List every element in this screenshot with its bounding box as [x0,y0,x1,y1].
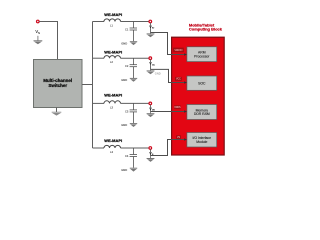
inductor L1 [104,19,121,22]
ground out row 1 [147,34,155,37]
svg-text:GND: GND [121,41,127,45]
inductor L2 [104,56,121,59]
svg-text:Module: Module [196,140,207,144]
wire node stub row 1 [150,23,152,33]
capacitor C4 [130,148,137,168]
node V out row 4 [149,147,152,150]
svg-text:Computing Block: Computing Block [189,27,223,32]
svg-text:GND: GND [121,168,127,172]
ground cap row 3 [130,124,137,127]
svg-text:VDDS: VDDS [174,107,181,109]
ground out row 4 [147,159,155,162]
wire bus branch row 1 [93,21,105,23]
svg-text:VCC: VCC [176,79,181,81]
svg-text:WE-MAPI: WE-MAPI [104,93,122,98]
svg-text:C2: C2 [125,64,129,68]
svg-text:WE-MAPI: WE-MAPI [104,49,122,54]
pin label VS [176,135,181,139]
block Mobile/Tablet Computing Block [172,37,225,155]
arrow into box row 3 [184,110,187,113]
svg-text:WE-MAPI: WE-MAPI [104,12,122,17]
block U3 SOC [187,76,217,90]
wire node stub row 2 [150,60,152,70]
svg-text:SOC: SOC [198,81,206,85]
ground switcher [52,112,62,115]
svg-text:GND: GND [121,78,127,82]
svg-text:DDR RAM: DDR RAM [194,112,210,116]
arrow into box row 4 [184,138,187,141]
svg-text:GND: GND [155,72,161,76]
wire inductor to node row 4 [121,147,149,149]
arrow into box row 1 [184,53,187,56]
svg-text:GND: GND [121,123,127,127]
capacitor C2 [130,58,137,78]
wire row 2 into block [151,69,185,82]
svg-text:C4: C4 [125,154,129,158]
svg-text:C3: C3 [125,109,129,113]
node V out row 2 [149,57,152,60]
pin label VDDS [174,105,181,109]
wire bus branch row 3 [93,102,105,104]
svg-text:Switcher: Switcher [48,83,67,88]
wire row 4 into block [151,140,185,156]
block U4 Memory DDR RAM [187,105,217,120]
wire row 3 into block [151,111,185,113]
inductor L4 [104,145,121,148]
svg-text:C1: C1 [125,27,129,31]
ground cap row 1 [130,42,137,45]
svg-text:Processor: Processor [194,54,210,58]
ground out row 3 [147,114,155,117]
wire inductor to node row 1 [121,21,149,23]
wire VIN to switcher [39,22,57,60]
ground input [34,41,43,44]
wire switcher output bus [82,22,93,149]
svg-text:WE-MAPI: WE-MAPI [104,138,122,143]
ground cap row 4 [130,168,137,171]
arrow into box row 2 [184,81,187,84]
inductor L3 [104,101,121,104]
svg-text:VS: VS [177,137,181,139]
node VIN [37,20,40,23]
capacitor C3 [130,103,137,123]
svg-text:VDD/IO: VDD/IO [174,50,182,52]
node V out row 3 [149,102,152,105]
wire row 1 into block [151,33,185,55]
ground cap row 2 [130,78,137,81]
block U2 ARM Processor [187,47,217,62]
wire VS stub [37,36,39,41]
capacitor C1 [130,22,137,42]
wire node stub row 4 [150,149,152,155]
wire bus branch row 2 [93,57,105,59]
wire inductor to node row 3 [121,102,149,104]
wire bus branch row 4 [93,147,105,149]
pin label VDD/IO [173,48,184,53]
wire switcher to ground [56,108,58,113]
wire node stub row 3 [150,105,152,112]
block U1 Multi-channel Switcher [34,60,83,108]
ground out row 2 [147,71,155,74]
node V out row 1 [149,20,152,23]
pin label VCC [175,77,182,81]
block U5 I/O Interface Module [187,133,217,148]
wire inductor to node row 2 [121,57,149,59]
